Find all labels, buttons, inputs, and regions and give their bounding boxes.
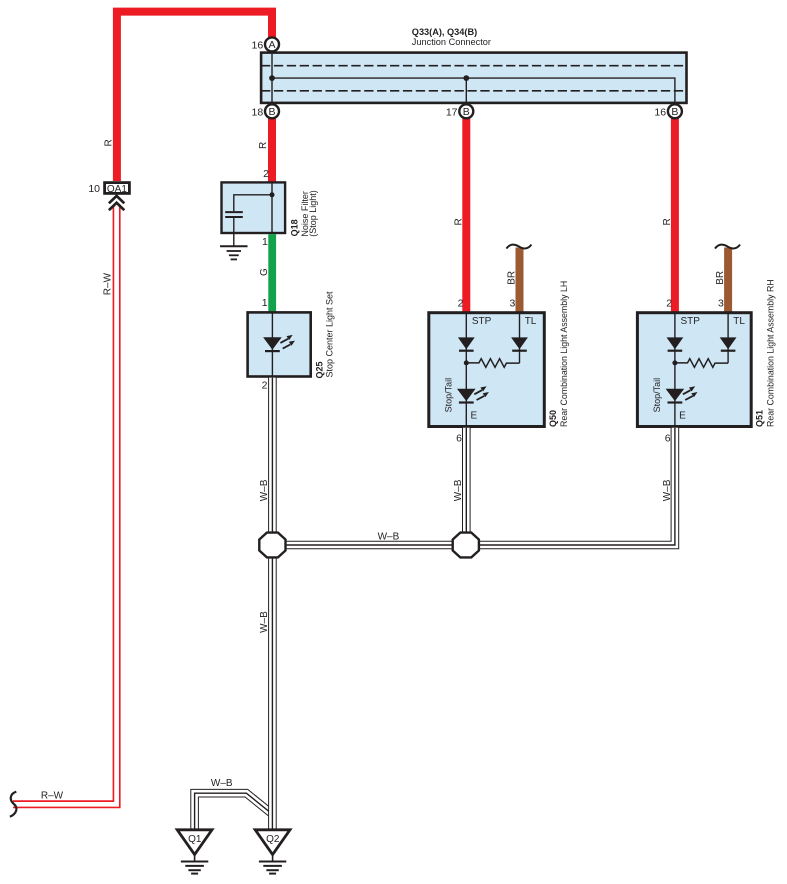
ground point Q1 triangle [177,830,212,855]
svg-text:16: 16 [654,106,666,118]
wire: red junction connector B18 down to noise filter Q18 [268,118,276,181]
svg-text:17: 17 [446,106,458,118]
svg-text:16: 16 [252,39,264,51]
svg-text:Q1: Q1 [188,834,202,845]
wire R-W from QA1 down and left off page [13,207,117,805]
svg-text:Rear Combination Light Assembl: Rear Combination Light Assembly RH [766,279,776,427]
ground point Q2 triangle [255,830,290,855]
wire: green Q18 pin1 to Q25 pin1 [268,234,276,311]
Q25 internal wire [271,312,273,377]
svg-text:(Stop Light): (Stop Light) [308,190,318,237]
wire: red junction connector B17 down to Q50 pin 2 [462,118,470,312]
svg-text:G: G [259,268,270,276]
Q51 STP internal wire [674,313,676,427]
Q18 internal wire pin2 to pin1 [271,182,273,234]
wire: red feed from QA1 up and across to junction connector pin A [117,12,272,181]
svg-text:Q33(A), Q34(B): Q33(A), Q34(B) [412,27,477,37]
svg-text:6: 6 [456,432,462,444]
svg-text:10: 10 [88,183,100,195]
svg-text:3: 3 [509,298,515,310]
wire: red junction connector B16 down to Q51 pin 2 [671,118,679,312]
Q51 stop/tail LED [666,386,698,402]
Q50 STP diode [458,337,475,350]
svg-text:E: E [679,410,686,421]
junction connector internal wire A to B [271,51,273,104]
svg-text:Q18: Q18 [289,219,299,236]
Q50 STP internal wire [465,313,467,427]
QA1 male connector chevrons [109,196,124,203]
stop center light set Q25 box [248,312,311,376]
Q50 junction dot [464,360,469,365]
svg-text:W–B: W–B [378,532,400,543]
node B pin 18 circle [265,104,279,118]
svg-text:B: B [463,106,470,118]
Q51 resistor [675,359,728,368]
ground symbol Q2 [259,862,286,874]
svg-text:2: 2 [263,168,269,180]
node B pin 16 circle [668,104,682,118]
svg-text:R: R [258,142,269,149]
svg-text:W–B: W–B [259,611,270,633]
Q1 ground stem [194,855,196,862]
junction connector dashed line lower [261,90,687,92]
continuation tilde Q50 [506,245,531,249]
svg-text:TL: TL [525,316,537,327]
ground symbol Q1 [181,862,208,874]
svg-text:W–B: W–B [453,479,464,501]
svg-text:Stop Center Light Set: Stop Center Light Set [325,291,335,378]
svg-text:B: B [671,106,678,118]
wire: brown BR into Q50 pin 3 [516,248,524,313]
Q18 internal wire to capacitor [234,195,272,212]
junction connector internal wire to B17 [465,78,467,104]
svg-text:W–B: W–B [259,479,270,501]
connector QA1 [105,183,130,194]
junction octagon middle [453,533,479,558]
svg-text:TL: TL [733,316,745,327]
svg-text:Stop/Tail: Stop/Tail [443,378,453,413]
Q18 junction dot [270,192,275,197]
Q2 ground stem [272,855,274,862]
Q50 TL internal wire [519,313,521,364]
wire W-B between octagons [285,541,453,550]
svg-text:STP: STP [681,316,701,327]
junction connector internal bus wire [272,78,675,104]
rear combination light assembly LH Q50 box [429,313,545,427]
svg-text:2: 2 [458,298,464,310]
svg-text:A: A [268,39,275,51]
noise filter Q18 box [222,182,286,233]
wire W-B from Q25 to junction octagon [268,378,277,533]
svg-text:R–W: R–W [41,791,64,802]
svg-text:Q25: Q25 [314,361,324,378]
svg-text:Q50: Q50 [548,410,558,427]
ground below Q18 [220,246,248,259]
LED in Q25 [263,335,295,351]
wire W-B from Q51 to junction octagon [479,428,675,545]
svg-text:Junction Connector: Junction Connector [412,37,491,47]
continuation tilde Q51 [715,245,740,249]
svg-text:3: 3 [718,298,724,310]
junction octagon left [259,533,285,558]
svg-text:1: 1 [262,297,268,309]
Q51 STP diode [667,337,684,350]
Q50 stop/tail LED [457,386,489,402]
Q50 TL diode [511,337,528,350]
junction connector dashed line upper [261,65,687,67]
svg-text:Stop/Tail: Stop/Tail [652,378,662,413]
svg-text:2: 2 [666,298,672,310]
Q51 TL internal wire [727,313,729,364]
svg-text:W–B: W–B [662,479,673,501]
wire W-B octagon to ground Q2 [268,557,277,831]
wire: brown BR into Q51 pin 3 [724,248,732,313]
svg-text:W–B: W–B [211,778,233,789]
svg-text:B: B [268,106,275,118]
svg-text:BR: BR [715,271,726,285]
Q51 TL diode [720,337,737,350]
wire W-B from Q50 to junction octagon [462,428,471,533]
svg-text:Rear Combination Light Assembl: Rear Combination Light Assembly LH [559,281,569,427]
capacitor ground stem [233,218,235,246]
Q51 junction dot [672,360,677,365]
svg-text:1: 1 [262,236,268,248]
svg-text:QA1: QA1 [107,184,127,195]
svg-text:E: E [471,410,478,421]
wire W-B branch to ground Q1 [195,793,273,831]
junction connector Q33(A), Q34(B) box [261,53,686,103]
svg-text:R: R [104,139,115,146]
svg-text:R–W: R–W [103,272,114,295]
svg-text:R: R [662,218,673,225]
Q50 resistor [466,359,519,368]
svg-text:2: 2 [262,379,268,391]
svg-text:R: R [453,218,464,225]
wire continuation squiggle [10,792,16,817]
svg-text:STP: STP [472,316,492,327]
node B pin 17 circle [459,104,473,118]
svg-text:Q2: Q2 [266,834,280,845]
svg-text:BR: BR [506,271,517,285]
svg-text:Q51: Q51 [755,410,765,427]
node A pin 16 circle [265,37,279,51]
rear combination light assembly RH Q51 box [637,313,751,427]
svg-text:6: 6 [665,432,671,444]
capacitor plates [225,211,243,213]
junction node dot left [269,75,275,81]
svg-text:18: 18 [252,106,264,118]
junction node dot middle [463,75,469,81]
